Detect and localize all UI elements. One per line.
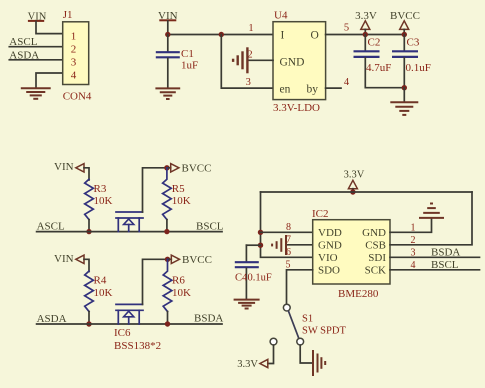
svg-text:10K: 10K bbox=[94, 195, 113, 207]
junction R6/BSDA bbox=[165, 321, 170, 326]
svg-text:0.1uF: 0.1uF bbox=[248, 273, 272, 284]
switch S1 common contact bbox=[283, 304, 290, 311]
transistor Q1 (SCL MOSFET) bbox=[116, 212, 143, 232]
wire R6 to BSDA rail bbox=[167, 312, 169, 325]
svg-text:R4: R4 bbox=[94, 275, 107, 287]
power port BVCC (arrow, SDA shifter) bbox=[168, 254, 212, 266]
wire J1 pin 4 to ground bbox=[36, 73, 63, 87]
connector J1 body bbox=[63, 22, 89, 85]
svg-text:U4: U4 bbox=[274, 9, 288, 21]
svg-text:BSS138*2: BSS138*2 bbox=[114, 340, 161, 352]
svg-text:1: 1 bbox=[71, 31, 77, 43]
svg-text:BSDA: BSDA bbox=[194, 313, 223, 325]
svg-text:R3: R3 bbox=[94, 183, 107, 195]
svg-text:I: I bbox=[281, 30, 285, 42]
svg-text:8: 8 bbox=[286, 222, 291, 233]
wire branch to U4 pin 3 (en) bbox=[221, 35, 273, 89]
junction VDD tap bbox=[258, 230, 263, 235]
op-amp U4 regulator body bbox=[273, 22, 326, 100]
wire Q1 drain up to BVCC node bbox=[143, 168, 167, 212]
svg-text:BSDA: BSDA bbox=[431, 246, 460, 258]
svg-text:0.1uF: 0.1uF bbox=[406, 62, 431, 74]
ground (J1 pin 4) bbox=[21, 88, 51, 99]
svg-text:2: 2 bbox=[71, 44, 77, 56]
capacitor C3 bbox=[392, 35, 418, 88]
junction BVCC/R5 bbox=[164, 165, 169, 170]
junction R3/ASCL bbox=[86, 229, 91, 234]
svg-text:10K: 10K bbox=[94, 287, 113, 299]
wire VIN node to U4 pin 1 bbox=[168, 34, 273, 36]
wire 3.3V rail bbox=[261, 191, 473, 193]
svg-text:5: 5 bbox=[344, 22, 349, 33]
svg-text:BVCC: BVCC bbox=[182, 254, 212, 266]
wire VIN to J1 pin 1 bbox=[36, 22, 63, 34]
wire C4 tap bbox=[246, 244, 260, 246]
power port BVCC (arrow, SCL shifter) bbox=[167, 163, 212, 175]
junction R4/ASDA bbox=[86, 321, 91, 326]
ground (below C1) bbox=[155, 88, 180, 99]
wire U4 pin 4 stub (by, no connect) bbox=[326, 87, 341, 89]
svg-text:SCK: SCK bbox=[365, 264, 386, 276]
power port 3.3V (switch) bbox=[237, 359, 268, 370]
junction R5/BSCL bbox=[164, 229, 169, 234]
wire IC6 drain up to BVCC node bbox=[143, 259, 168, 304]
svg-text:J1: J1 bbox=[63, 9, 73, 21]
wire to IC2 pin 8 VDD bbox=[261, 231, 313, 233]
svg-text:GND: GND bbox=[362, 227, 386, 239]
svg-text:CSB: CSB bbox=[365, 239, 386, 251]
power port VIN (bar style, input rail) bbox=[158, 10, 178, 22]
svg-text:BVCC: BVCC bbox=[390, 10, 420, 22]
wire U4 pin 5 output to BVCC node bbox=[326, 34, 405, 36]
svg-text:IC6: IC6 bbox=[114, 327, 131, 339]
wire IC2 pin 3 SDI / BSDA bbox=[390, 256, 480, 258]
svg-text:BSCL: BSCL bbox=[431, 259, 459, 271]
svg-text:1: 1 bbox=[248, 23, 253, 34]
svg-text:C2: C2 bbox=[368, 36, 381, 48]
junction C2/C3 ground node bbox=[402, 85, 407, 90]
junction VIN/C1 bbox=[165, 32, 170, 37]
svg-text:BVCC: BVCC bbox=[182, 163, 212, 175]
wire throw to ground bbox=[300, 345, 312, 363]
ground (below C4) bbox=[234, 300, 260, 309]
power port 3.3V (above IC2) bbox=[344, 170, 365, 192]
resistor R3 bbox=[85, 179, 94, 219]
wire U4 pin 2 stub bbox=[248, 59, 273, 61]
svg-text:5: 5 bbox=[286, 259, 291, 270]
ground (switch, rotated right) bbox=[313, 350, 325, 376]
svg-text:3.3V: 3.3V bbox=[237, 359, 258, 370]
junction BVCC/R6 bbox=[165, 257, 170, 262]
svg-text:3.3V: 3.3V bbox=[344, 170, 365, 181]
svg-text:3: 3 bbox=[71, 57, 77, 69]
svg-text:C3: C3 bbox=[407, 36, 420, 48]
junction BVCC bbox=[402, 32, 407, 37]
svg-text:BME280: BME280 bbox=[338, 288, 379, 300]
wire rail down to VIO (pin 6) bbox=[261, 192, 313, 257]
svg-text:SDI: SDI bbox=[368, 252, 386, 264]
wire IC2 pin 5 SDO down to switch bbox=[287, 270, 313, 304]
svg-text:O: O bbox=[311, 30, 319, 42]
capacitor C4 bbox=[235, 245, 259, 298]
wire ASCL to J1 pin 2 bbox=[9, 46, 62, 48]
wire VIN down to node bbox=[167, 21, 169, 35]
resistor R6 bbox=[163, 259, 172, 311]
wire IC2 pin 1 to ground bbox=[390, 219, 432, 232]
ground (output caps) bbox=[390, 102, 418, 115]
svg-text:IC2: IC2 bbox=[312, 208, 329, 220]
wire IC2 pin 7 stub bbox=[286, 244, 312, 246]
ground (IC2 pin 1, inverted) bbox=[419, 204, 444, 218]
power port BVCC bbox=[390, 10, 420, 35]
svg-text:R5: R5 bbox=[172, 183, 185, 195]
capacitor C1 bbox=[156, 35, 180, 88]
switch S1 throw contact (ground side) bbox=[297, 338, 304, 345]
svg-text:GND: GND bbox=[318, 239, 342, 251]
switch S1 throw contact (3.3V side) bbox=[270, 338, 277, 345]
svg-text:CON4: CON4 bbox=[63, 91, 92, 103]
svg-text:4: 4 bbox=[344, 77, 350, 88]
svg-text:3.3V: 3.3V bbox=[355, 10, 377, 22]
ground (U4 pin 2, rotated left) bbox=[233, 47, 247, 73]
switch S1 lever bbox=[288, 311, 299, 339]
svg-text:VIN: VIN bbox=[54, 253, 74, 265]
svg-text:en: en bbox=[280, 84, 291, 96]
svg-text:S1: S1 bbox=[302, 314, 313, 325]
svg-text:6: 6 bbox=[286, 247, 291, 258]
svg-text:C4: C4 bbox=[235, 273, 248, 284]
wire throw to 3.3V bbox=[268, 345, 274, 363]
svg-text:VIO: VIO bbox=[318, 252, 338, 264]
wire IC2 pin 4 SCK / BSCL bbox=[390, 269, 480, 271]
svg-text:3: 3 bbox=[246, 77, 251, 88]
svg-text:1uF: 1uF bbox=[181, 59, 198, 71]
svg-text:VIN: VIN bbox=[54, 161, 74, 173]
resistor R4 bbox=[85, 271, 94, 311]
power port 3.3V bbox=[355, 10, 377, 35]
svg-text:SW SPDT: SW SPDT bbox=[302, 326, 346, 337]
svg-text:7: 7 bbox=[286, 234, 291, 245]
svg-text:4: 4 bbox=[71, 70, 77, 82]
junction 3.3V rail bbox=[350, 189, 355, 194]
capacitor C2 bbox=[354, 35, 405, 88]
svg-text:10K: 10K bbox=[172, 287, 191, 299]
wire R3 to ASCL rail bbox=[88, 220, 90, 232]
svg-text:C1: C1 bbox=[181, 48, 194, 60]
svg-text:3.3V-LDO: 3.3V-LDO bbox=[273, 102, 320, 114]
junction 3.3V bbox=[363, 32, 368, 37]
svg-text:BSCL: BSCL bbox=[196, 220, 224, 232]
svg-text:R6: R6 bbox=[172, 275, 185, 287]
ground (IC2 pin 7, rotated left) bbox=[272, 235, 286, 255]
junction C4 tap bbox=[258, 243, 263, 248]
wire ASDA to J1 pin 3 bbox=[9, 59, 62, 61]
wire R5 to BSCL rail bbox=[166, 220, 168, 232]
svg-text:by: by bbox=[307, 84, 319, 96]
svg-text:10K: 10K bbox=[172, 195, 191, 207]
wire ASDA-BSDA rail bbox=[37, 323, 222, 325]
wire IC2 pin 2 CSB to 3.3V rail bbox=[390, 192, 472, 245]
IC2 BME280 body bbox=[313, 220, 390, 284]
svg-text:VDD: VDD bbox=[318, 227, 342, 239]
transistor IC6 (SDA MOSFET) bbox=[116, 304, 143, 324]
junction en branch bbox=[219, 32, 224, 37]
svg-text:GND: GND bbox=[280, 56, 305, 68]
resistor R5 bbox=[163, 168, 172, 220]
svg-text:4.7uF: 4.7uF bbox=[366, 62, 391, 74]
wire down to ground bbox=[403, 88, 405, 101]
wire ASCL-BSCL rail bbox=[37, 231, 222, 233]
wire R4 to ASDA rail bbox=[88, 312, 90, 325]
power port VIN (arrow, SDA shifter) bbox=[54, 253, 89, 272]
svg-text:SDO: SDO bbox=[318, 264, 340, 276]
power port VIN (bar style, J1 pin 1) bbox=[28, 12, 47, 23]
power port VIN (arrow, SCL shifter) bbox=[54, 161, 89, 180]
